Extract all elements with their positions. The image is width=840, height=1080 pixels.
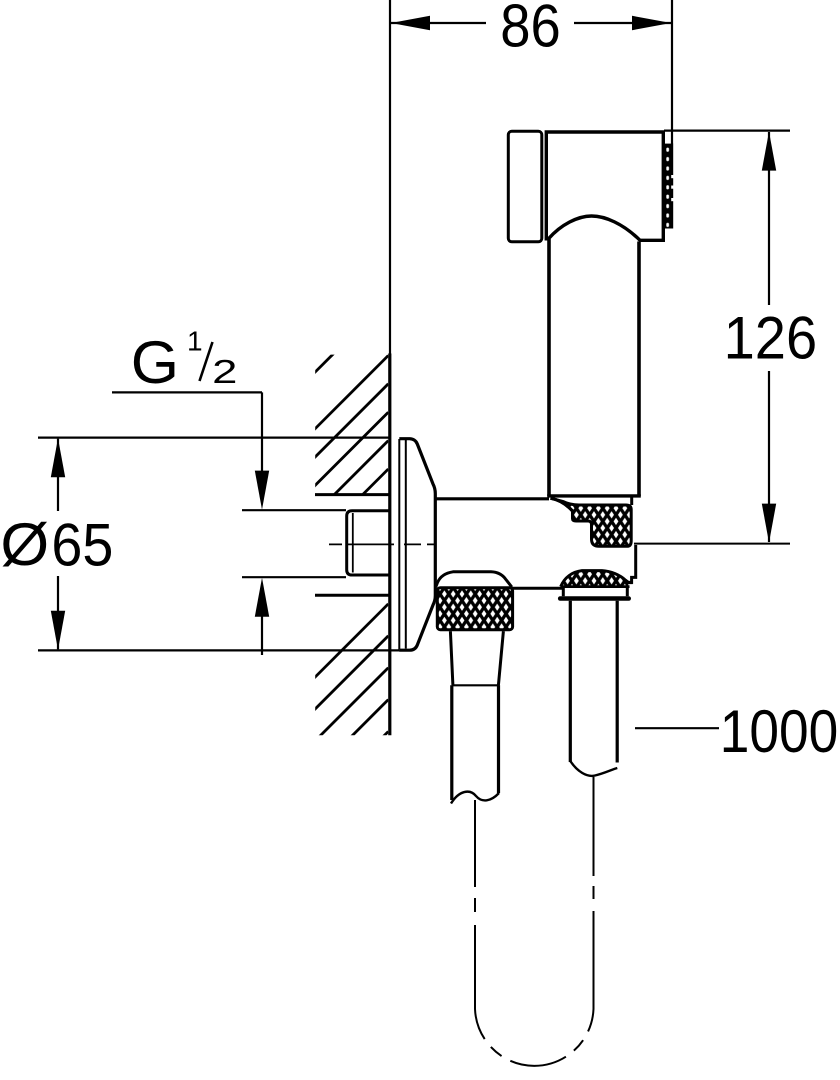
hose centerline right — [593, 777, 595, 1009]
wire: dim-86 dimension line — [391, 22, 671, 24]
handle-to-nut step — [630, 497, 633, 505]
wall hole top edge — [315, 493, 389, 496]
svg-text:1000: 1000 — [720, 698, 839, 765]
wire: 1000 leader line — [635, 727, 719, 729]
escutcheon outline — [399, 439, 435, 651]
hose centerline left — [474, 800, 476, 1009]
dim Ø65: bottom extension line — [38, 649, 401, 651]
upper knurled hose nut at handle bottom — [551, 498, 632, 546]
right nut underline — [561, 585, 630, 588]
wall hatching — [314, 299, 388, 806]
hose loop arc — [475, 1009, 594, 1066]
svg-text:2: 2 — [212, 354, 237, 391]
right hose-nut dome (knurled) — [561, 571, 629, 587]
wire: thread top extension line — [242, 509, 346, 511]
handle bottom cap — [547, 494, 641, 497]
svg-text:G: G — [131, 329, 179, 396]
dim Ø65: dimension line — [57, 439, 59, 650]
arrow: dim-86 left — [391, 16, 430, 30]
right nut sides — [563, 588, 627, 597]
wire: dim-126 top extension line — [664, 130, 790, 132]
svg-text:65: 65 — [51, 512, 113, 579]
wire: dim-126 bottom extension line (centerline extension) — [634, 543, 790, 545]
wall hole bottom edge — [315, 594, 389, 597]
handle left edge — [547, 239, 551, 496]
left knurled nut block — [437, 588, 512, 630]
arrow: Ø65 top — [51, 438, 65, 477]
thread G1/2 outline — [347, 511, 389, 575]
left tube edges — [452, 685, 499, 800]
left tube joint line — [452, 684, 499, 686]
left hose-nut dome (white) — [436, 572, 512, 587]
arrow: Ø65 bottom — [51, 611, 65, 650]
wire: dim-126 dimension line — [768, 132, 770, 542]
svg-text:86: 86 — [500, 0, 561, 59]
right tube edges — [570, 601, 617, 763]
arrow: thread bottom up-arrow with shaft — [255, 578, 269, 617]
arrow: dim-86 right — [632, 16, 671, 30]
arrow: dim-126 top — [762, 132, 776, 171]
dim Ø65: top extension line — [38, 437, 389, 439]
thread G1/2 root line — [352, 513, 354, 573]
cove fillet below handle — [551, 498, 573, 511]
wire: G1/2 leader line — [112, 392, 262, 471]
centerline of valve (dash-dot) — [329, 543, 435, 545]
wire: dim-86 right extension line — [671, 0, 673, 144]
svg-text:126: 126 — [724, 305, 818, 372]
right tube break (wave) — [570, 761, 617, 776]
spray face knurl band — [665, 144, 673, 229]
valve body bottom edge — [512, 587, 562, 590]
escutcheon rim back lines — [398, 439, 400, 650]
wire: thread bottom extension line — [242, 576, 346, 578]
wall surface line — [388, 354, 391, 736]
svg-text:1: 1 — [187, 326, 203, 357]
arrow: dim-126 bottom — [762, 504, 776, 543]
shower head cap — [508, 131, 542, 242]
shower head body — [546, 132, 663, 240]
left tube break (wave) — [451, 792, 499, 804]
arrow: G1/2 leader down to thread top — [255, 471, 269, 510]
handle right edge — [637, 242, 641, 497]
left tapered tube — [450, 631, 503, 685]
valve body top edge — [435, 497, 549, 500]
svg-text:Ø: Ø — [0, 511, 49, 578]
valve body right edge below knurl — [628, 545, 636, 582]
wire: dim-86 left extension line (wall plane projection) — [389, 0, 391, 354]
right nut flange — [560, 596, 629, 601]
